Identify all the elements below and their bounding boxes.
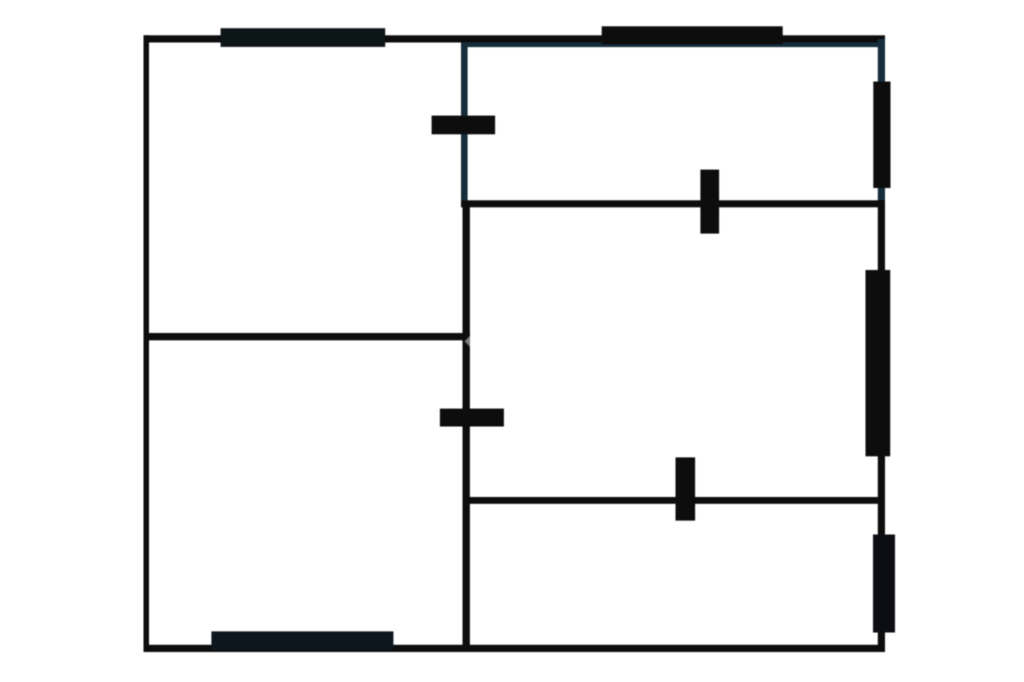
window W4 right middle [866, 270, 891, 456]
window W3 right upper [873, 82, 890, 189]
wall interior vertical divider [463, 203, 470, 652]
wall outer top [144, 35, 886, 42]
wall interior horizontal y500 [463, 497, 885, 504]
window W2 top-right [602, 26, 783, 44]
wall outer right upper (slate) [878, 39, 885, 205]
wall top-right room top edge (slate) [461, 43, 885, 48]
wall top-right room left edge (slate) [461, 43, 468, 205]
door D2 divider lower [440, 409, 504, 427]
wall outer bottom [144, 645, 886, 652]
window W6 bottom-left [211, 631, 393, 650]
junction wedge at divider/y335 [465, 336, 470, 347]
wall outer right lower [878, 200, 885, 652]
wall interior horizontal y205 [461, 200, 885, 207]
wall outer left [144, 35, 150, 652]
wall interior horizontal y335 [144, 333, 471, 340]
door D1 divider upper [432, 116, 496, 135]
door D4 wall y500 [676, 457, 696, 520]
window W1 top-left [221, 28, 386, 47]
door D3 wall y205 [700, 170, 719, 234]
window W5 right lower [873, 535, 895, 633]
